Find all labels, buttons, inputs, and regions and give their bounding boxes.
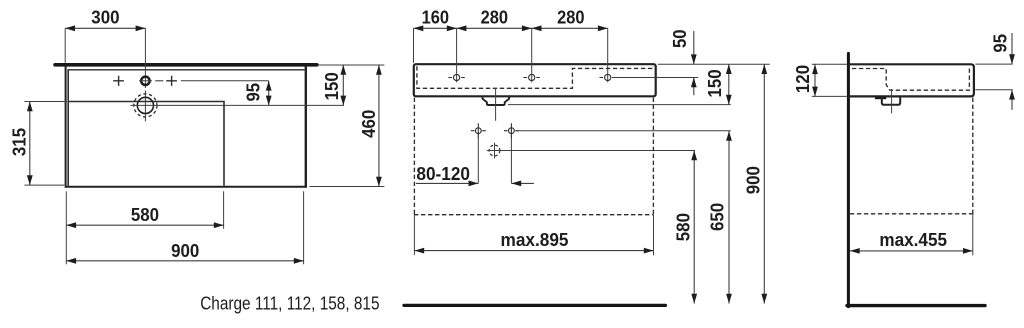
dim 315 bottom extension xyxy=(24,184,64,186)
rim inner edge top xyxy=(67,69,304,71)
fixing hole vertical left xyxy=(477,134,479,183)
dim 120 line xyxy=(814,64,816,96)
svg-text:95: 95 xyxy=(990,34,1010,53)
tap hole crosshair 1 xyxy=(448,74,464,80)
tap centerline dashes xyxy=(155,80,163,82)
dim 50 lower arrow xyxy=(693,78,695,96)
floor line xyxy=(847,304,985,307)
inner bowl rect plan xyxy=(68,70,224,186)
dim 900 line front xyxy=(763,64,765,303)
svg-text:460: 460 xyxy=(359,110,379,138)
tap mark left cross xyxy=(113,76,124,86)
dim 150/460 top extension xyxy=(318,64,384,66)
dim 280 line b xyxy=(532,27,608,29)
dim 300 line xyxy=(65,27,145,29)
dim 580 line xyxy=(66,224,223,226)
inner bowl dashed front xyxy=(417,66,653,88)
svg-text:315: 315 xyxy=(10,128,30,156)
dim 120 bottom extension xyxy=(812,95,847,97)
dim 460 bottom extension xyxy=(310,186,385,188)
clearance dashed left xyxy=(413,98,415,215)
ground line front xyxy=(404,304,665,307)
dim 95 top extension side xyxy=(975,63,1012,65)
outer basin rect plan xyxy=(65,66,307,188)
wall line xyxy=(847,53,850,306)
dim 315 top extension xyxy=(24,101,67,103)
tap centerline 3 xyxy=(607,28,609,82)
dim 280 line a xyxy=(457,27,532,29)
svg-text:580: 580 xyxy=(673,213,693,241)
drain solid circle xyxy=(137,97,153,113)
fixing hole right xyxy=(504,123,519,138)
max895 extension right xyxy=(653,215,655,256)
svg-text:Charge 111, 112, 158, 815: Charge 111, 112, 158, 815 xyxy=(200,294,379,314)
drain centerline front xyxy=(495,88,497,121)
dim 95 line xyxy=(268,81,270,106)
svg-text:95: 95 xyxy=(243,83,263,102)
tap hole crosshair 3 xyxy=(600,74,616,80)
svg-text:160: 160 xyxy=(422,8,449,28)
drain dashed circle xyxy=(134,94,157,117)
dim 95 upper arrow side xyxy=(1011,33,1013,64)
svg-text:80-120: 80-120 xyxy=(416,164,470,184)
dim 95 bottom extension side xyxy=(975,89,1012,91)
svg-text:300: 300 xyxy=(91,8,119,28)
fixing hole vertical right xyxy=(510,134,512,183)
clearance dashed bottom xyxy=(414,214,654,216)
dim 95 top extension xyxy=(181,80,269,82)
tap hole ring xyxy=(141,77,149,85)
svg-text:150: 150 xyxy=(322,72,342,100)
drain symbol cross v xyxy=(494,143,496,159)
top bar (back edge) xyxy=(55,63,317,67)
dim 300 extension xyxy=(64,28,66,63)
clearance dashed vertical side xyxy=(972,98,974,214)
svg-text:900: 900 xyxy=(171,241,199,261)
dim 160 line xyxy=(414,27,457,29)
svg-text:150: 150 xyxy=(705,69,725,97)
dim 315 line xyxy=(29,102,31,186)
tap centerline 2 xyxy=(531,28,533,82)
svg-text:280: 280 xyxy=(481,8,508,28)
drain fitting side xyxy=(882,96,900,104)
drain centerline side xyxy=(891,89,893,113)
outer rect right edge plan xyxy=(305,66,307,188)
fixing hole left xyxy=(471,123,486,138)
clearance dashed right xyxy=(652,98,654,215)
dim 900 right extension xyxy=(303,191,305,264)
dim 580 right extension xyxy=(223,191,225,229)
dim 650 extension xyxy=(516,130,731,132)
dim max895 line xyxy=(414,250,653,252)
svg-text:max.455: max.455 xyxy=(879,230,947,250)
max895 extension left xyxy=(413,215,415,256)
dim 460 line xyxy=(378,65,380,187)
dim 95 lower arrow side xyxy=(1011,90,1013,110)
clearance dashed horizontal side xyxy=(850,213,974,215)
dim 50 upper arrow xyxy=(693,31,695,64)
tap centerline vertical xyxy=(144,28,146,121)
dim 150 line front xyxy=(728,64,730,104)
basin outer rect front xyxy=(414,64,656,96)
dim 80-120 arrow left xyxy=(416,182,478,184)
drain fitting front xyxy=(483,96,510,105)
dim 80-120 arrow right xyxy=(511,182,534,184)
tap centerline 1 xyxy=(456,28,458,82)
max455 extension right xyxy=(972,214,974,256)
basin profile side xyxy=(848,64,974,96)
drain fitting extension line xyxy=(508,104,731,106)
drain extension line to 150 dim xyxy=(130,104,344,106)
tap mark right cross xyxy=(166,76,177,86)
tap hole cross h xyxy=(139,80,152,82)
svg-text:280: 280 xyxy=(557,8,584,28)
svg-text:50: 50 xyxy=(670,29,690,48)
drain symbol front dashed circle xyxy=(489,145,500,156)
dim 900 line xyxy=(66,260,303,262)
svg-text:120: 120 xyxy=(793,65,813,93)
dim 580 left extension xyxy=(65,191,67,264)
svg-text:max.895: max.895 xyxy=(501,230,569,250)
dim 580 line front xyxy=(693,151,695,304)
top dim extension left xyxy=(413,28,415,63)
dim 650 line xyxy=(728,131,730,304)
dim 580 extension (drain line) xyxy=(487,150,695,152)
dim max455 line xyxy=(850,250,973,252)
bowl interior dashed side xyxy=(852,67,970,90)
dim 150 line xyxy=(342,65,344,105)
overflow slot side xyxy=(875,97,886,100)
top edge extension right xyxy=(658,63,770,65)
svg-text:900: 900 xyxy=(744,166,764,194)
dim 50 extension (tap line) xyxy=(612,77,698,79)
svg-text:650: 650 xyxy=(708,203,728,231)
tap hole crosshair 2 xyxy=(524,74,540,80)
dim 120 top extension xyxy=(812,63,847,65)
svg-text:580: 580 xyxy=(131,205,159,225)
